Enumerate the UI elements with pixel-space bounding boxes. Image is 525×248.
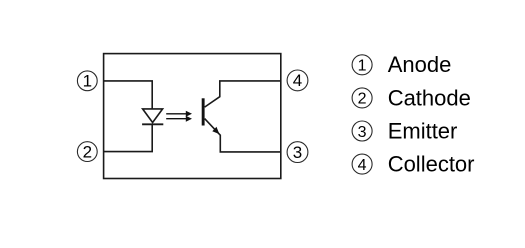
wire emitter to pin 3 (205, 119, 281, 152)
wire LED cathode to pin 2 (104, 124, 153, 151)
LED D1 (142, 109, 163, 124)
light arrow lower (166, 116, 192, 122)
legend pin 3: Emitter (352, 118, 457, 143)
svg-text:4: 4 (293, 71, 302, 90)
legend pin 1: Anode (352, 52, 451, 77)
svg-text:2: 2 (358, 91, 367, 108)
pin 2 (77, 142, 97, 162)
svg-text:4: 4 (358, 157, 367, 174)
wire collector to pin 4 (205, 81, 281, 107)
svg-text:Emitter: Emitter (388, 118, 458, 143)
svg-text:Cathode: Cathode (388, 85, 471, 110)
light arrow upper (166, 111, 192, 117)
svg-text:Anode: Anode (388, 52, 452, 77)
pin 4 (287, 70, 308, 91)
emitter arrowhead (212, 127, 219, 134)
legend pin 2: Cathode (352, 85, 471, 110)
svg-text:3: 3 (358, 124, 367, 141)
package outline U1 (104, 54, 281, 179)
legend pin 4: Collector (352, 152, 474, 177)
svg-text:2: 2 (83, 142, 92, 161)
wire pin 1 to LED anode (104, 81, 153, 109)
svg-text:3: 3 (293, 143, 302, 162)
pin 3 (287, 142, 308, 163)
svg-text:1: 1 (358, 58, 367, 75)
svg-text:Collector: Collector (388, 152, 475, 177)
svg-text:1: 1 (83, 72, 92, 91)
phototransistor Q1 base bar (202, 98, 205, 125)
pin 1 (77, 71, 97, 91)
